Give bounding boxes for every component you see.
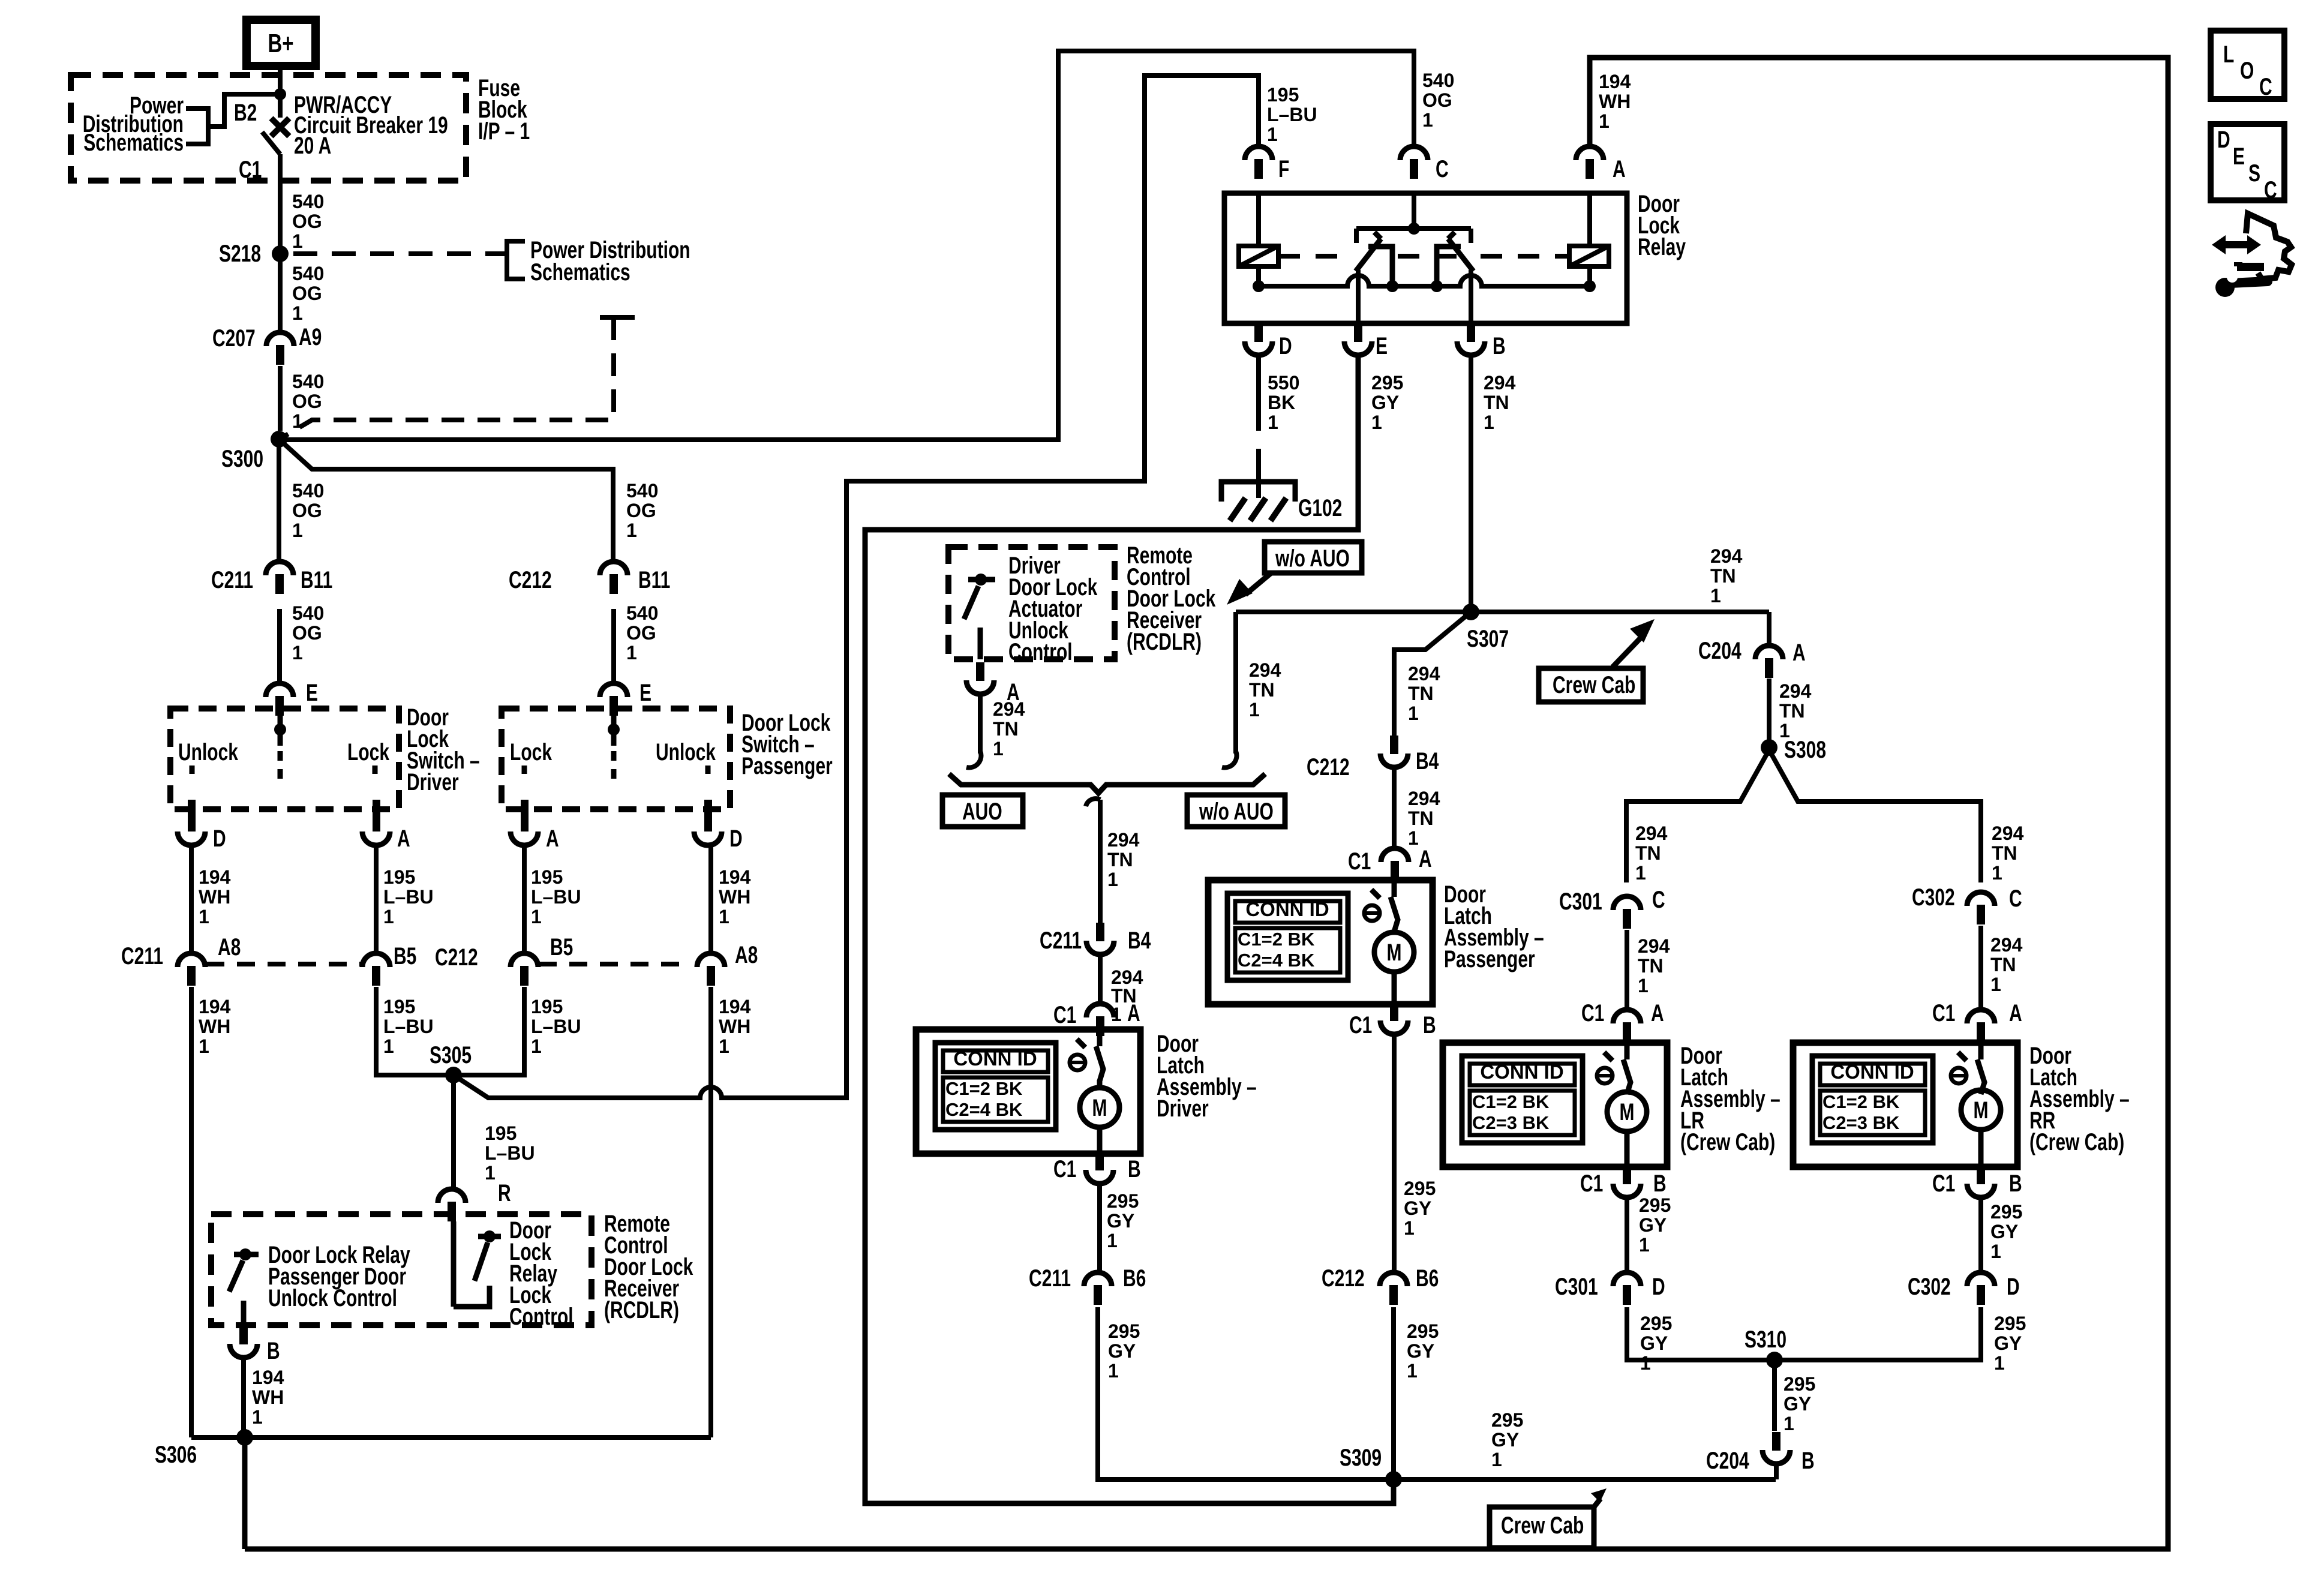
bracket for power distribution ref bbox=[186, 109, 208, 144]
driver switch pin D bar bbox=[188, 800, 196, 831]
dashed wire S218 to power distribution bbox=[293, 251, 507, 256]
label C302 (C) bbox=[1912, 884, 1955, 911]
curl S307 left wire end bbox=[1222, 751, 1236, 768]
label C1 (driver B) bbox=[1053, 1156, 1076, 1182]
label RCDLR bottom bbox=[604, 1211, 693, 1323]
wire S305 to relay F routing bbox=[454, 76, 1259, 1098]
label S307 bbox=[1467, 626, 1509, 652]
arrow crew cab lower shaft bbox=[1594, 1499, 1601, 1507]
svg-text:C1: C1 bbox=[1349, 1012, 1372, 1038]
label B6 (passenger) bbox=[1416, 1265, 1439, 1292]
label Door Lock Relay bbox=[1638, 191, 1686, 260]
bottom 194 WH bus bbox=[245, 58, 2168, 1549]
wire B to S307 bbox=[1469, 355, 1473, 612]
label B (RR latch) bbox=[2009, 1170, 2022, 1197]
svg-text:C211: C211 bbox=[211, 567, 253, 593]
connector C211 B11 bbox=[266, 562, 293, 594]
arrow crew cab shaft bbox=[1613, 636, 1643, 667]
svg-text:D: D bbox=[2217, 127, 2230, 153]
RR latch assembly motor M bbox=[1974, 1097, 1989, 1124]
svg-text:C1: C1 bbox=[1053, 1156, 1076, 1182]
LR latch assembly CONN ID table bbox=[1462, 1056, 1583, 1143]
svg-text:C: C bbox=[2009, 885, 2022, 912]
label R bbox=[498, 1180, 511, 1206]
label Crew Cab (upper) bbox=[1553, 672, 1635, 698]
RR latch assembly motor to box bottom wire bbox=[1978, 1130, 1984, 1167]
wire S308 right branch bbox=[1769, 750, 1981, 882]
svg-text:E: E bbox=[2233, 143, 2245, 170]
relay C internal stub bbox=[1412, 193, 1416, 229]
DESC box bbox=[2211, 124, 2284, 200]
label C1 (RR B) bbox=[1932, 1170, 1955, 1197]
label E (passenger) bbox=[639, 680, 651, 706]
relay C split left stub bbox=[1354, 229, 1359, 243]
label E (driver) bbox=[306, 680, 318, 706]
connector C211 B5 bbox=[362, 953, 390, 986]
RR latch assembly switch tick bbox=[1958, 1052, 1966, 1061]
wire C301 C to C1 A bbox=[1625, 930, 1629, 1010]
label Door Lock Switch - Driver bbox=[407, 704, 480, 795]
label Door Latch Assembly - RR bbox=[2029, 1043, 2130, 1155]
passenger latch assembly motor bbox=[1374, 932, 1414, 972]
svg-text:R: R bbox=[498, 1180, 511, 1206]
wire RR B down bbox=[1978, 1197, 1983, 1272]
splice S306 bbox=[236, 1429, 253, 1446]
connector C1 A passenger latch bbox=[1381, 848, 1409, 881]
svg-text:A8: A8 bbox=[735, 942, 758, 968]
svg-text:B: B bbox=[1128, 1156, 1141, 1182]
svg-text:C1: C1 bbox=[1580, 1170, 1603, 1197]
svg-text:Crew Cab: Crew Cab bbox=[1553, 672, 1635, 698]
svg-text:Unlock: Unlock bbox=[178, 739, 238, 766]
wire C211 B5 down to S305 bbox=[376, 987, 449, 1075]
relay unlock coil bbox=[1569, 246, 1609, 266]
wire C204 A to S308 bbox=[1767, 679, 1771, 740]
dashed link C211 A8-B5 bbox=[206, 962, 362, 966]
RR latch assembly switch blade bbox=[1977, 1059, 1984, 1094]
label Crew Cab (lower) bbox=[1501, 1512, 1584, 1539]
driver switch dashed contact lock bbox=[373, 766, 378, 782]
wire S307 to C204 A bbox=[1767, 612, 1771, 646]
AUO box bbox=[942, 795, 1023, 827]
label C1 (driver A) bbox=[1053, 1002, 1076, 1028]
wire S218 to C207 bbox=[278, 259, 283, 332]
wire C212 B11 to E pin bbox=[611, 609, 616, 683]
svg-text:C1=2 BKC2=3 BK: C1=2 BKC2=3 BK bbox=[1822, 1091, 1900, 1133]
driver latch assembly motor M bbox=[1092, 1095, 1107, 1121]
label C204 (A) bbox=[1698, 638, 1742, 664]
svg-text:S306: S306 bbox=[155, 1442, 197, 1468]
label E (relay) bbox=[1376, 333, 1388, 359]
label S305 bbox=[430, 1042, 472, 1068]
label Power Distribution Schematics (right) bbox=[530, 237, 690, 286]
svg-text:CONN ID: CONN ID bbox=[953, 1047, 1037, 1070]
LR latch assembly switch stub bbox=[1625, 1043, 1630, 1059]
service icon lower bar bbox=[2237, 262, 2264, 267]
svg-text:B: B bbox=[267, 1338, 280, 1364]
splice S300 bbox=[271, 431, 287, 448]
dashed link C212 B5-A8 bbox=[539, 962, 684, 966]
label C212 (B4) bbox=[1307, 754, 1350, 781]
label B (LR latch) bbox=[1653, 1170, 1667, 1197]
svg-text:B: B bbox=[1423, 1012, 1436, 1038]
connector C302 C bbox=[1967, 892, 1995, 924]
arrow crew cab head bbox=[1630, 619, 1655, 643]
door lock relay box bbox=[1224, 193, 1627, 323]
lock relay fixed contact bbox=[454, 1286, 490, 1307]
connector E passenger switch bbox=[600, 683, 627, 716]
label Unlock (driver) bbox=[178, 739, 238, 766]
svg-text:S308: S308 bbox=[1784, 737, 1826, 763]
passenger latch assembly switch blade bbox=[1391, 897, 1398, 932]
DESC letters bbox=[2217, 127, 2230, 153]
service icon part outline bbox=[2246, 214, 2292, 279]
driver unlock actuator contact bar bbox=[968, 577, 995, 583]
wire S308 left branch bbox=[1626, 750, 1769, 882]
crew cab lower box bbox=[1490, 1507, 1594, 1548]
RR latch assembly switch to motor wire bbox=[1978, 1090, 1984, 1093]
label A (pass latch) bbox=[1419, 846, 1432, 872]
label S306 bbox=[155, 1442, 197, 1468]
svg-text:M: M bbox=[1974, 1097, 1989, 1124]
label A8 (passenger) bbox=[735, 942, 758, 968]
label G102 bbox=[1298, 495, 1342, 521]
label S300 bbox=[221, 446, 263, 472]
svg-text:DoorLockRelay: DoorLockRelay bbox=[1638, 191, 1686, 260]
w/o AUO lower box bbox=[1187, 795, 1285, 827]
wire C211 B11 to E pin bbox=[277, 609, 282, 683]
svg-text:C207: C207 bbox=[212, 325, 256, 352]
label A (RR latch) bbox=[2009, 1000, 2022, 1026]
svg-text:C1=2 BKC2=4 BK: C1=2 BKC2=4 BK bbox=[1238, 929, 1315, 971]
svg-text:C1=2 BKC2=4 BK: C1=2 BKC2=4 BK bbox=[945, 1078, 1023, 1120]
connector C1 B LR latch bbox=[1613, 1166, 1641, 1197]
relay lock coil bbox=[1239, 246, 1278, 266]
svg-text:C1=2 BKC2=3 BK: C1=2 BKC2=3 BK bbox=[1472, 1091, 1550, 1133]
driver latch assembly box bbox=[916, 1029, 1140, 1154]
label A (relay) bbox=[1613, 156, 1626, 182]
svg-text:B4: B4 bbox=[1416, 748, 1439, 775]
wire S300 to relay pin C bbox=[279, 51, 1414, 440]
driver switch common node bbox=[274, 724, 286, 736]
wire S305 down to RCDLR R bbox=[451, 1080, 456, 1189]
svg-text:Door Lock RelayPassenger DoorU: Door Lock RelayPassenger DoorUnlock Cont… bbox=[268, 1242, 410, 1311]
label B11 (passenger) bbox=[638, 567, 670, 593]
lock relay contact pivot bbox=[484, 1230, 496, 1242]
svg-text:A: A bbox=[1419, 846, 1432, 872]
connector C1 A RR latch bbox=[1967, 1010, 1995, 1042]
driver latch assembly switch to motor wire bbox=[1097, 1080, 1103, 1088]
B+ label bbox=[268, 29, 293, 59]
label F bbox=[1278, 156, 1289, 182]
splice S310 bbox=[1766, 1352, 1783, 1368]
label B (pass latch) bbox=[1423, 1012, 1436, 1038]
svg-text:D: D bbox=[729, 825, 743, 852]
label B5 (driver) bbox=[394, 943, 416, 969]
label A8 (driver) bbox=[218, 934, 241, 960]
label C212 (B5 row) bbox=[435, 944, 478, 971]
relay C split right stub bbox=[1469, 229, 1473, 243]
passenger latch assembly box bbox=[1208, 880, 1433, 1004]
passenger latch assembly motor M bbox=[1387, 939, 1402, 966]
svg-text:CONN ID: CONN ID bbox=[1480, 1061, 1563, 1083]
relay left common vertical bbox=[1356, 270, 1361, 323]
wire C212 A8 down through crossover bbox=[708, 987, 713, 1437]
svg-text:C: C bbox=[1436, 156, 1449, 182]
svg-text:F: F bbox=[1278, 156, 1289, 182]
svg-text:C1: C1 bbox=[1053, 1002, 1076, 1028]
dashed wire to S300 bbox=[283, 317, 614, 437]
svg-text:CONN ID: CONN ID bbox=[1245, 898, 1329, 920]
connector F relay bbox=[1245, 146, 1272, 179]
LR latch assembly box bbox=[1443, 1043, 1667, 1167]
svg-text:B: B bbox=[1493, 333, 1506, 359]
label B4 (driver) bbox=[1128, 927, 1151, 954]
svg-text:S310: S310 bbox=[1744, 1326, 1786, 1353]
label C1 (pass B) bbox=[1349, 1012, 1372, 1038]
LOC box bbox=[2211, 31, 2284, 99]
label C212 (B6) bbox=[1322, 1265, 1365, 1292]
label C211 (B11) bbox=[211, 567, 253, 593]
svg-text:B5: B5 bbox=[550, 934, 573, 960]
connector C1 A LR latch bbox=[1613, 1010, 1641, 1042]
svg-text:A: A bbox=[397, 825, 410, 852]
passenger latch assembly switch tick bbox=[1371, 890, 1380, 898]
svg-text:O: O bbox=[2240, 58, 2254, 84]
wire B+ to breaker junction bbox=[278, 66, 283, 118]
relay right common vertical bbox=[1469, 270, 1473, 323]
label B4 (passenger) bbox=[1416, 748, 1439, 775]
label C204 (B) bbox=[1706, 1448, 1749, 1474]
label Door Latch Assembly - LR bbox=[1680, 1043, 1780, 1155]
passenger latch assembly motor to box bottom wire bbox=[1392, 972, 1397, 1004]
wire S306 to bottom bus bbox=[242, 1437, 248, 1549]
RR latch assembly switch stub bbox=[1978, 1043, 1984, 1059]
label D (relay) bbox=[1279, 333, 1292, 359]
wire RCDLR B to S306 bbox=[241, 1358, 246, 1433]
wire S307 to C212 B4 bbox=[1394, 612, 1471, 736]
label Lock (driver) bbox=[347, 739, 389, 766]
label C301 (C) bbox=[1559, 888, 1602, 915]
svg-text:C301: C301 bbox=[1559, 888, 1602, 915]
lock relay contact bar bbox=[478, 1234, 501, 1239]
passenger switch common node bbox=[608, 724, 620, 736]
passenger switch dashed contact lock bbox=[522, 766, 527, 782]
passenger switch dashed contact unlock bbox=[705, 766, 711, 782]
wire C212 B5 down to S305 bbox=[459, 987, 524, 1075]
svg-text:E: E bbox=[1376, 333, 1388, 359]
svg-text:C: C bbox=[1652, 887, 1665, 913]
label A (driver) bbox=[397, 825, 410, 852]
wire C204 B to S309 bbox=[1774, 1464, 1779, 1479]
svg-text:C1: C1 bbox=[1932, 1170, 1955, 1197]
passenger switch pin A bar bbox=[521, 800, 529, 831]
connector C301 D bbox=[1613, 1272, 1641, 1305]
svg-text:B: B bbox=[1801, 1448, 1815, 1474]
svg-text:B11: B11 bbox=[301, 567, 332, 593]
wire actuator to A pin bbox=[978, 628, 983, 659]
svg-text:w/o AUO: w/o AUO bbox=[1275, 545, 1350, 572]
label C1 (LR A) bbox=[1581, 1000, 1604, 1026]
wire C211 B4 to C1 A bbox=[1098, 954, 1103, 1004]
svg-text:M: M bbox=[1387, 939, 1402, 966]
label B2 bbox=[234, 100, 257, 126]
label Door Latch Assembly - Driver bbox=[1157, 1031, 1257, 1122]
svg-text:Lock: Lock bbox=[347, 739, 389, 766]
splice S308 bbox=[1761, 739, 1777, 756]
svg-text:S218: S218 bbox=[219, 241, 261, 267]
connector C211 B6 bbox=[1084, 1272, 1112, 1305]
service icon arrowheads bbox=[2212, 235, 2261, 254]
wire C302 C to C1 A bbox=[1978, 926, 1983, 1010]
curl center option wire bbox=[1086, 798, 1100, 806]
svg-text:Unlock: Unlock bbox=[656, 739, 716, 766]
relay bus dot A bbox=[1584, 280, 1596, 292]
label Power Distribution Schematics bbox=[83, 92, 184, 156]
relay A coil wire bbox=[1587, 193, 1592, 286]
svg-text:C: C bbox=[2259, 74, 2272, 100]
door lock switch driver dashed box bbox=[170, 709, 399, 809]
svg-text:D: D bbox=[213, 825, 226, 852]
driver switch pin D cup bbox=[178, 831, 205, 845]
svg-text:B4: B4 bbox=[1128, 927, 1151, 954]
svg-text:C302: C302 bbox=[1912, 884, 1955, 911]
connector B RCDLR bbox=[230, 1326, 257, 1358]
connector C302 D bbox=[1967, 1272, 1995, 1305]
LR latch assembly motor M bbox=[1620, 1099, 1635, 1125]
svg-text:C: C bbox=[2264, 177, 2277, 203]
connector C relay bbox=[1400, 146, 1428, 179]
svg-text:C1: C1 bbox=[1581, 1000, 1604, 1026]
LR latch assembly motor to box bottom wire bbox=[1625, 1131, 1630, 1167]
wire driver latch B down bbox=[1097, 1184, 1102, 1272]
label Door Latch Assembly - Passenger bbox=[1444, 881, 1544, 972]
relay bus dot F bbox=[1253, 280, 1265, 292]
wire RCDLR A down to curl bbox=[978, 694, 983, 754]
driver unlock actuator blade bbox=[964, 586, 978, 619]
wire S307 left branch down bbox=[1233, 612, 1238, 754]
wire breaker to S218 bbox=[278, 154, 283, 248]
arrow w/o AUO head bbox=[1227, 579, 1253, 605]
relay bus with hops bbox=[1259, 275, 1590, 286]
RCDLR dashed box bbox=[211, 1214, 591, 1325]
passenger switch dashed contact center bbox=[611, 751, 617, 782]
driver latch assembly motor to box bottom wire bbox=[1097, 1127, 1103, 1154]
label Driver Door Lock Actuator Unlock Control bbox=[1008, 553, 1098, 665]
label w/o AUO (upper) bbox=[1275, 545, 1350, 572]
svg-text:S307: S307 bbox=[1467, 626, 1509, 652]
label A (LR latch) bbox=[1651, 1000, 1664, 1026]
unlock relay contact bar bbox=[234, 1252, 259, 1257]
label B6 (driver) bbox=[1123, 1265, 1146, 1292]
relay internal node C bbox=[1408, 223, 1420, 235]
svg-text:B11: B11 bbox=[638, 567, 670, 593]
label A (RCDLR) bbox=[1007, 679, 1020, 706]
label D (driver) bbox=[213, 825, 226, 852]
label C bbox=[1436, 156, 1449, 182]
service icon double arrow bbox=[2221, 241, 2251, 248]
svg-text:B: B bbox=[2009, 1170, 2022, 1197]
svg-text:C212: C212 bbox=[509, 567, 552, 593]
svg-text:C301: C301 bbox=[1555, 1274, 1598, 1300]
connector A RCDLR bbox=[966, 662, 994, 694]
svg-text:E: E bbox=[306, 680, 318, 706]
label S218 bbox=[219, 241, 261, 267]
wire passenger A to C212 B5 bbox=[522, 845, 527, 953]
RR latch assembly CONN ID table bbox=[1812, 1056, 1933, 1143]
wire E pin into driver switch bbox=[278, 710, 283, 746]
svg-text:C204: C204 bbox=[1706, 1448, 1749, 1474]
connector C211 A8 bbox=[178, 953, 205, 986]
svg-text:A: A bbox=[1651, 1000, 1664, 1026]
wire passenger D to C212 A8 bbox=[708, 845, 713, 953]
wire C211 A8 down to S306 corner bbox=[189, 987, 194, 1437]
RR latch assembly motor bbox=[1961, 1090, 2001, 1130]
wire C301 D to S310 bbox=[1627, 1307, 1981, 1360]
LR latch assembly switch tick bbox=[1604, 1052, 1613, 1061]
label C302 (D) bbox=[1908, 1274, 1951, 1300]
circuit breaker X symbol bbox=[271, 118, 289, 136]
bracket power distribution right bbox=[507, 241, 525, 279]
svg-text:A: A bbox=[1127, 1000, 1140, 1026]
wire driver D to C211 A8 bbox=[189, 845, 194, 953]
label C211 (B6) bbox=[1029, 1265, 1071, 1292]
svg-text:M: M bbox=[1092, 1095, 1107, 1121]
svg-text:C1: C1 bbox=[239, 157, 262, 183]
svg-text:L: L bbox=[2223, 41, 2234, 68]
hanging connector bar bbox=[600, 315, 635, 320]
connector C212 B6 bbox=[1380, 1272, 1407, 1305]
relay right bracket dot bbox=[1431, 280, 1443, 292]
label C301 (D) bbox=[1555, 1274, 1598, 1300]
relay left fixed bracket bbox=[1368, 247, 1392, 283]
connector C212 B11 bbox=[600, 562, 627, 594]
svg-text:D: D bbox=[1652, 1274, 1665, 1300]
connector C1 B RR latch bbox=[1967, 1166, 1995, 1197]
relay left switch blade bbox=[1356, 232, 1381, 271]
label S310 bbox=[1744, 1326, 1786, 1353]
svg-text:D: D bbox=[2007, 1274, 2020, 1300]
circuit breaker blade bbox=[262, 132, 280, 154]
LR latch assembly motor bbox=[1607, 1092, 1647, 1131]
label B11 (driver) bbox=[301, 567, 332, 593]
svg-text:AUO: AUO bbox=[962, 798, 1002, 825]
connector C212 B5 bbox=[511, 953, 538, 986]
driver latch assembly motor direction circle bbox=[1070, 1055, 1085, 1070]
label D (C301) bbox=[1652, 1274, 1665, 1300]
B+ battery feed symbol bbox=[247, 20, 316, 66]
wire S310 to C204 B bbox=[1772, 1360, 1777, 1431]
label Unlock (passenger) bbox=[656, 739, 716, 766]
svg-text:S300: S300 bbox=[221, 446, 263, 472]
connector D relay bbox=[1245, 323, 1272, 355]
svg-text:C204: C204 bbox=[1698, 638, 1742, 664]
label C (C301) bbox=[1652, 887, 1665, 913]
connector C1 B passenger latch bbox=[1380, 1002, 1408, 1034]
splice S307 bbox=[1463, 604, 1479, 620]
label Lock (passenger) bbox=[510, 739, 552, 766]
label B5 (passenger) bbox=[550, 934, 573, 960]
lock relay contact blade bbox=[475, 1242, 488, 1281]
connector B relay bbox=[1457, 323, 1485, 355]
relay left bracket dot bbox=[1386, 280, 1398, 292]
relay coil link dashes bbox=[1278, 254, 1569, 259]
splice S218 bbox=[272, 245, 289, 262]
svg-text:C211: C211 bbox=[1040, 927, 1082, 954]
label Door Lock Relay Passenger Door Unlock Control bbox=[268, 1242, 410, 1311]
svg-text:A: A bbox=[2009, 1000, 2022, 1026]
svg-text:C212: C212 bbox=[1322, 1265, 1365, 1292]
